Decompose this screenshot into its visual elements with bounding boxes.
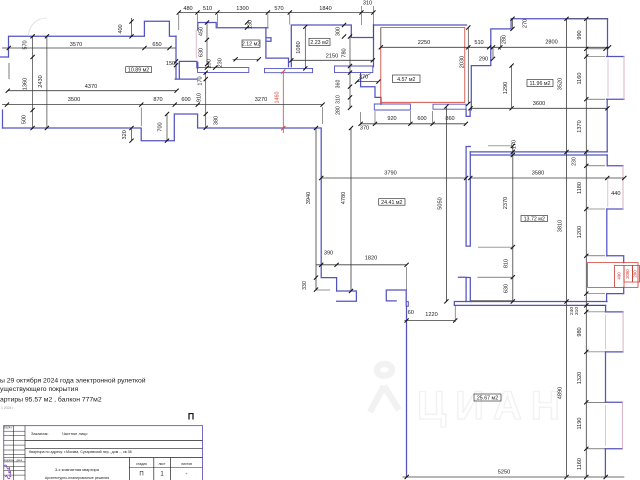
room label 13.72 <box>521 216 548 223</box>
svg-text:170: 170 <box>198 76 204 85</box>
svg-text:3580: 3580 <box>532 171 544 177</box>
svg-text:330: 330 <box>302 281 308 290</box>
svg-text:Квартира по адресу: г.Москва: Квартира по адресу: г.Москва, Сухаревски… <box>29 450 132 454</box>
balcony D inner edge <box>604 406 606 446</box>
svg-text:920: 920 <box>387 116 396 122</box>
svg-text:1200: 1200 <box>577 226 583 238</box>
svg-text:440: 440 <box>611 191 620 197</box>
extension lines under sills <box>360 112 362 125</box>
svg-text:3-х комнатная квартира: 3-х комнатная квартира <box>55 467 100 472</box>
wall: top-right entry jog <box>471 19 607 110</box>
wall: room 2.12 right wall with jamb bump <box>266 28 289 67</box>
dimension 1080 vertical room 2.23 <box>304 27 306 69</box>
svg-text:1300: 1300 <box>236 6 248 12</box>
svg-text:2024 г: 2024 г <box>3 426 13 430</box>
svg-text:ы 29 октября 2024 года электро: ы 29 октября 2024 года электронной рулет… <box>0 377 146 385</box>
room label 10.89 <box>126 67 152 74</box>
svg-text:Заказчик:: Заказчик: <box>31 431 49 436</box>
dimension 2150 row <box>291 59 373 61</box>
wall: sill under room 2.23 left (thin partition) <box>265 68 313 72</box>
balcony B outline <box>607 166 623 209</box>
svg-text:Частное лицо: Частное лицо <box>62 431 88 436</box>
title block main horizontal lines <box>25 440 203 442</box>
extension lines for top row <box>178 14 180 30</box>
faint watermark paw <box>370 364 399 412</box>
balcony C inner edge <box>605 315 607 349</box>
svg-text:600: 600 <box>417 116 426 122</box>
svg-text:3600: 3600 <box>533 101 545 107</box>
dimension 170/910 vertical <box>205 73 207 128</box>
svg-text:3570: 3570 <box>70 42 82 48</box>
svg-text:500: 500 <box>22 115 28 124</box>
svg-text:4.57 м2: 4.57 м2 <box>397 77 415 83</box>
svg-text:2800: 2800 <box>545 40 557 46</box>
svg-text:ЦИАН: ЦИАН <box>417 384 569 428</box>
balcony D outline <box>605 402 622 449</box>
dimension row 480/510/1300/570/1840 at top <box>179 12 374 14</box>
svg-text:1180: 1180 <box>577 182 583 194</box>
svg-text:300: 300 <box>336 27 342 36</box>
svg-text:-: - <box>186 471 188 477</box>
svg-text:230: 230 <box>572 157 578 166</box>
dimension 300 rotated <box>342 23 346 27</box>
red dim line 1460 vertical <box>282 72 284 134</box>
dimension 3790 row living room <box>321 177 466 179</box>
dimension 3600 row room 11.96 <box>471 107 608 109</box>
wall: divider lower part below door <box>459 277 471 301</box>
svg-text:3810: 3810 <box>558 220 564 232</box>
red measurement rectangle room 4.57 <box>381 28 465 103</box>
dimension 170/2370/810/630 vertical room 13.72 <box>512 146 514 302</box>
svg-text:1160: 1160 <box>577 72 583 84</box>
wall: divider stub tab below sill <box>466 109 470 116</box>
svg-text:570: 570 <box>274 6 283 12</box>
svg-text:490: 490 <box>617 272 622 280</box>
right column short extension arms <box>586 48 605 50</box>
dimension 1290 vertical room 11.96 <box>511 66 513 109</box>
wall: closet between room 10.89 and room 2.12 <box>175 61 197 79</box>
red dim box 490 <box>615 266 625 288</box>
wall: bottom room 25.67 top wall (double) <box>454 302 607 306</box>
svg-text:130: 130 <box>248 20 254 29</box>
dimension 570 vertical left <box>32 36 34 129</box>
svg-text:700: 700 <box>158 122 164 131</box>
svg-text:1840: 1840 <box>319 6 331 12</box>
extension line 2250 left <box>380 28 382 47</box>
svg-text:10.89 м2: 10.89 м2 <box>128 68 149 74</box>
wall: room 2.23 top/left/right step <box>291 25 373 67</box>
svg-text:дата: дата <box>17 459 23 462</box>
svg-text:уществующего покрытия: уществующего покрытия <box>0 386 78 393</box>
svg-text:170: 170 <box>512 140 518 149</box>
dimension row 3500/870/600/3270 corridor <box>2 104 323 106</box>
svg-text:600: 600 <box>181 97 190 103</box>
svg-text:60: 60 <box>408 310 414 316</box>
red left edge near room 2.12 <box>195 30 197 58</box>
wall: doorway left stub <box>337 291 357 301</box>
wall: living room 24.41 left wall <box>321 128 336 291</box>
svg-text:280: 280 <box>336 106 342 115</box>
red dim box 280 <box>633 266 640 283</box>
wall: room 10.89 left lower wall <box>2 110 4 128</box>
wall: right outer wall above balcony A <box>607 19 609 57</box>
room label 25.67 <box>474 394 501 402</box>
svg-text:230: 230 <box>218 58 224 67</box>
svg-text:1460: 1460 <box>274 92 280 104</box>
dimension 130 mini near room 2.12 step <box>245 20 249 24</box>
wall: sill under room 4.57 right piece <box>433 104 466 109</box>
extension line 1220 right <box>454 305 456 322</box>
wall: niche steps left of room 4.57 <box>361 73 381 105</box>
title block left grid rows <box>4 430 25 432</box>
dimension row 390/1820 <box>316 264 407 266</box>
dimension 290 mini <box>491 45 495 49</box>
signature purple squiggle <box>4 465 11 477</box>
wall: right outer wall between balconies C and D <box>605 352 607 402</box>
balcony C outline <box>606 312 624 352</box>
dimension row 5250 bottom <box>403 476 625 478</box>
svg-text:1080: 1080 <box>296 41 302 53</box>
dimension 3580/440 row room 13.72 <box>470 177 624 179</box>
wall: right outer wall below balcony D <box>604 449 606 477</box>
svg-text:13.72 м2: 13.72 м2 <box>524 217 545 223</box>
wall: room 10.89 bottom + corridor bottom with steps <box>3 114 321 141</box>
svg-text:280: 280 <box>501 35 507 44</box>
dimension row 370/920/600/860 under room 4.57 <box>361 123 466 125</box>
svg-text:П: П <box>188 412 194 422</box>
svg-text:270: 270 <box>523 19 529 28</box>
svg-text:630: 630 <box>503 284 509 293</box>
wall: left jog to image edge <box>0 56 9 58</box>
svg-text:11.96 м2: 11.96 м2 <box>530 81 551 87</box>
svg-text:3940: 3940 <box>306 192 312 204</box>
svg-text:570: 570 <box>23 40 29 49</box>
dimension 780 vertical <box>349 37 351 108</box>
svg-text:Архитектурно-планировочные реш: Архитектурно-планировочные решения <box>45 476 109 480</box>
balcony B inner edge <box>607 180 609 207</box>
svg-text:4370: 4370 <box>85 84 97 90</box>
svg-text:2370: 2370 <box>503 197 509 209</box>
svg-text:380: 380 <box>214 116 220 125</box>
title block outer border <box>4 426 203 480</box>
svg-text:810: 810 <box>503 259 509 268</box>
dimension 270 vertical mini <box>512 19 514 29</box>
svg-text:780: 780 <box>342 48 348 57</box>
wall: doorway right jamb <box>386 290 406 306</box>
extension line 3270 right <box>322 107 324 124</box>
svg-text:стадия: стадия <box>136 462 147 466</box>
balcony A outline <box>607 57 625 100</box>
svg-text:1190: 1190 <box>577 417 583 429</box>
svg-text:370: 370 <box>360 125 369 131</box>
wall: sill right of room 2.23 (thin partition) <box>335 66 373 73</box>
svg-text:310: 310 <box>363 1 372 7</box>
svg-text:2.12 м2: 2.12 м2 <box>242 42 260 48</box>
svg-text:510: 510 <box>203 6 212 12</box>
svg-text:2250: 2250 <box>418 40 430 46</box>
wall: room 13.72 top wall (double) <box>470 152 607 155</box>
svg-text:артиры 95.57 м2 , балкон 777м: артиры 95.57 м2 , балкон 777м2 <box>0 396 102 404</box>
svg-text:650: 650 <box>152 42 161 48</box>
faint door arc top-left <box>29 18 47 36</box>
svg-text:450: 450 <box>199 27 205 36</box>
svg-text:400: 400 <box>118 24 124 33</box>
svg-text:510: 510 <box>474 40 483 46</box>
dimension 320 vertical mini <box>129 126 133 130</box>
red dim box 2080 <box>624 266 633 283</box>
svg-text:310: 310 <box>574 307 580 315</box>
dimension column 990/1160/1370/230/1180/1200 right <box>585 19 587 477</box>
svg-text:1290: 1290 <box>503 82 509 94</box>
door leaf line at left wall <box>8 63 10 79</box>
svg-text:4780: 4780 <box>341 192 347 204</box>
wall: divider between living room and room 13.72 (double, with door opening) <box>466 147 470 247</box>
room label 24.41 <box>379 199 405 206</box>
balcony A inner edge <box>607 60 609 97</box>
room label 11.96 <box>527 80 553 88</box>
wall: right outer wall between balcony A and divider <box>606 99 608 152</box>
title block right columns <box>128 458 130 480</box>
wall: right outer wall below balcony B <box>606 209 608 256</box>
svg-text:1370: 1370 <box>577 120 583 132</box>
room label 2.23 <box>309 38 330 46</box>
svg-text:630: 630 <box>199 48 205 57</box>
svg-text:2.23 м2: 2.23 м2 <box>310 40 328 46</box>
svg-text:150: 150 <box>166 61 175 67</box>
svg-text:1360: 1360 <box>23 78 29 90</box>
svg-text:3520: 3520 <box>558 78 564 90</box>
wall: sill under room 4.57 left piece <box>374 104 410 110</box>
wall: bay window top edge <box>607 256 624 263</box>
dimension 450/630 vertical at room 2.12 <box>206 23 208 65</box>
svg-text:3790: 3790 <box>384 171 396 177</box>
wall: right outer wall to balcony B <box>606 155 608 166</box>
svg-text:2080: 2080 <box>625 269 630 279</box>
svg-text:подпись: подпись <box>4 459 14 462</box>
svg-text:24.41 м2: 24.41 м2 <box>381 200 402 206</box>
dimension row 3570/650 left top <box>2 47 176 49</box>
svg-text:лист: лист <box>158 462 166 466</box>
dimension 4780 vertical living room <box>350 128 352 291</box>
svg-text:2150: 2150 <box>326 53 338 59</box>
wall: sill under room 2.12 (thin partition) <box>198 68 249 73</box>
svg-text:1320: 1320 <box>577 372 583 384</box>
svg-text:870: 870 <box>153 97 162 103</box>
svg-text:480: 480 <box>183 6 192 12</box>
room label 2.12 <box>242 40 260 48</box>
room label 4.57 <box>393 75 421 83</box>
svg-text:П: П <box>139 471 143 477</box>
wall: room 2.12 top and left <box>198 23 268 69</box>
wall: bay window bottom edge <box>607 287 624 301</box>
svg-text:2030: 2030 <box>460 56 466 68</box>
dimension 400 vertical mini <box>131 18 133 36</box>
wall: bottom room 25.67 left wall <box>406 306 408 477</box>
dimension row 60/1220 <box>405 320 456 322</box>
dimension 2030 vertical room 4.57 <box>467 28 469 104</box>
svg-text:1820: 1820 <box>365 256 377 262</box>
svg-text:листов: листов <box>181 462 192 466</box>
svg-text:980: 980 <box>577 327 583 336</box>
svg-text:1160: 1160 <box>577 458 583 470</box>
svg-text:290: 290 <box>479 56 488 62</box>
svg-text:910: 910 <box>197 93 203 102</box>
dimension 2430 vertical left <box>46 36 48 128</box>
dimension row 2250/510/2800 right top <box>381 46 609 48</box>
extension line 1820 right <box>406 267 408 290</box>
svg-text:390: 390 <box>324 250 333 256</box>
svg-text:2430: 2430 <box>38 75 44 87</box>
dimension 4370 row <box>8 90 177 92</box>
svg-text:1220: 1220 <box>425 312 437 318</box>
svg-text:1 2024 г: 1 2024 г <box>1 406 14 410</box>
svg-text:320: 320 <box>122 130 128 139</box>
svg-text:310: 310 <box>336 95 342 104</box>
wall: jamb notch <box>407 302 409 307</box>
wall: below main wall to balcony C <box>605 305 607 312</box>
dimension 700 vertical <box>166 114 168 141</box>
svg-text:3270: 3270 <box>255 97 267 103</box>
wall: room 4.57 top and left <box>374 24 467 26</box>
dimension long column 3520/3810/4890 <box>566 19 568 477</box>
extension arms top right <box>567 18 608 20</box>
dimension 3940 vertical <box>315 128 317 290</box>
dimension 5050 vertical <box>445 107 447 302</box>
wall: room 10.89 right wall <box>175 36 177 79</box>
svg-text:360: 360 <box>336 80 342 89</box>
red bay rectangle <box>588 263 639 288</box>
svg-text:3500: 3500 <box>68 97 80 103</box>
title block left grid columns <box>13 426 15 480</box>
svg-text:280: 280 <box>633 270 638 278</box>
wall: top-left room 10.89 top edge with niche step <box>9 21 177 57</box>
svg-text:5050: 5050 <box>438 197 444 209</box>
svg-text:5250: 5250 <box>498 470 510 476</box>
svg-text:990: 990 <box>577 30 583 39</box>
